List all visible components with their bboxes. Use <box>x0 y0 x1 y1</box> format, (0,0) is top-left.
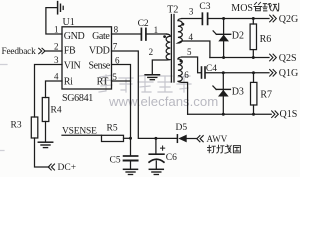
svg-text:R6: R6 <box>260 34 272 45</box>
wire pin3 VIN to R3 <box>35 65 63 118</box>
svg-text:U1: U1 <box>63 17 75 28</box>
Q1S arrow >> <box>271 111 278 118</box>
svg-text:Feedback: Feedback <box>2 47 37 57</box>
svg-text:D5: D5 <box>176 123 188 133</box>
AWV arrow << <box>197 135 204 142</box>
DC+ arrow << <box>48 164 55 171</box>
wire Q2S rail <box>210 57 269 59</box>
pin text FB <box>64 46 76 57</box>
T2 pin label 3 <box>189 6 194 16</box>
ground (below C6) <box>149 168 163 170</box>
T2 pin label 5 <box>187 47 192 57</box>
pin number 8 <box>114 25 119 35</box>
capacitor C5 <box>124 155 138 157</box>
wire pin1 GND to top ground <box>46 8 62 34</box>
svg-text:VIN: VIN <box>64 61 81 72</box>
junction sense/R5 <box>129 137 132 140</box>
label aux winding (hanzi) <box>208 145 241 153</box>
node Feedback label <box>2 47 37 57</box>
U1 label <box>63 17 75 28</box>
svg-text:www.elecfans.com: www.elecfans.com <box>108 94 218 109</box>
svg-text:VDD: VDD <box>89 46 110 57</box>
svg-text:GND: GND <box>64 31 85 42</box>
junction D3 bottom <box>222 113 225 116</box>
IC U1 box <box>62 27 112 89</box>
junction D2 top <box>222 17 225 20</box>
node Q2G label <box>279 14 298 25</box>
net label VSENSE <box>62 127 97 137</box>
junction R6 top <box>252 17 255 20</box>
label D2 <box>232 31 244 42</box>
zener diode D3 <box>222 73 224 114</box>
resistor R6 <box>252 19 254 25</box>
pin text RT <box>97 77 109 88</box>
ground (below R4) <box>38 141 52 143</box>
svg-text:SG6841: SG6841 <box>62 93 93 104</box>
zener diode D2 <box>223 19 225 58</box>
Q1G arrow >> <box>269 69 276 76</box>
svg-text:4: 4 <box>189 32 194 42</box>
capacitor C4 <box>201 67 203 78</box>
svg-text:Q2S: Q2S <box>279 53 297 64</box>
pin number 3 <box>54 55 59 65</box>
pin number 4 <box>54 71 59 81</box>
node Q1S label <box>280 109 298 120</box>
T2 pin label 1 <box>154 25 159 35</box>
pin text GND <box>64 31 85 42</box>
label D3 <box>232 86 244 97</box>
wire Feedback to pin2 FB <box>45 50 62 52</box>
pin number 2 <box>54 41 59 51</box>
node Q1G label <box>279 68 298 79</box>
wire pin7 VDD down and right to D5 <box>112 51 177 138</box>
svg-text:R7: R7 <box>260 89 272 100</box>
diode D5 <box>176 135 178 143</box>
pin number 5 <box>112 72 117 82</box>
svg-text:FB: FB <box>64 46 76 57</box>
svg-text:2: 2 <box>149 47 154 57</box>
ground (below C5) <box>124 168 138 170</box>
label D5 <box>176 123 188 133</box>
svg-text:C2: C2 <box>138 19 149 29</box>
svg-text:DC+: DC+ <box>58 163 77 173</box>
svg-text:AWV: AWV <box>207 134 228 144</box>
svg-text:Q1G: Q1G <box>279 68 298 79</box>
ground (T2 primary) <box>145 74 159 76</box>
junction R6 bottom <box>252 56 255 59</box>
label R6 <box>260 34 272 45</box>
svg-text:1: 1 <box>154 25 159 35</box>
pin text Sense <box>88 61 110 72</box>
label C2 <box>138 19 149 29</box>
junction R7 top <box>252 71 255 74</box>
polarity dot primary <box>163 35 166 38</box>
junction C6 tap <box>154 137 157 140</box>
T2 pin label 2 <box>149 47 154 57</box>
pin text VDD <box>89 46 110 57</box>
watermark www.elecfans.com <box>108 94 218 109</box>
wire pin5 RT tee <box>112 80 131 82</box>
junction R7 bottom <box>252 113 255 116</box>
label R4 <box>51 105 62 115</box>
pin number 1 <box>54 25 59 35</box>
Q2G arrow >> <box>269 15 276 22</box>
wire Q1G rail <box>206 72 269 74</box>
polarity dot secondary top <box>182 23 185 26</box>
svg-text:D2: D2 <box>232 31 244 42</box>
svg-text:Q2G: Q2G <box>279 14 298 25</box>
part number SG6841 <box>62 93 93 104</box>
junction D2 bottom <box>222 56 225 59</box>
svg-text:1: 1 <box>54 25 59 35</box>
watermark chinese chars <box>0 65 191 151</box>
wire T2 pin5 to C4 <box>182 57 201 73</box>
ground (top, rotated) <box>57 2 59 14</box>
svg-text:D3: D3 <box>232 86 244 97</box>
polarity dot secondary bottom <box>180 60 183 63</box>
svg-text:3: 3 <box>189 6 194 16</box>
junction D3 top <box>222 71 225 74</box>
transformer core <box>170 15 172 83</box>
T2 secondary winding top <box>178 19 210 58</box>
svg-text:C5: C5 <box>110 156 121 166</box>
resistor R4 <box>42 98 49 122</box>
capacitor C2 <box>140 28 142 40</box>
transformer T2 label <box>167 5 178 16</box>
svg-text:Gate: Gate <box>92 31 110 42</box>
resistor R3 <box>31 117 38 138</box>
wire Q1S rail <box>188 113 272 115</box>
wire R3 to DC+ <box>35 138 50 167</box>
label C3 <box>199 2 210 12</box>
svg-text:Ri: Ri <box>64 77 73 88</box>
svg-text:7: 7 <box>113 41 118 51</box>
wire VSENSE underline to R5 <box>62 134 102 136</box>
wire R4 to ground <box>45 122 47 142</box>
svg-text:Q1S: Q1S <box>280 109 298 120</box>
svg-text:C3: C3 <box>199 2 210 12</box>
label R5 <box>107 124 118 134</box>
pin number 7 <box>113 41 118 51</box>
label R3 <box>11 120 22 130</box>
svg-text:RT: RT <box>97 77 109 88</box>
capacitor C3 <box>201 13 203 24</box>
plus sign C6 <box>161 146 165 150</box>
label R7 <box>260 89 272 100</box>
Q2S arrow >> <box>269 54 276 61</box>
svg-text:6: 6 <box>184 70 189 80</box>
T2 pin label 4 <box>189 32 194 42</box>
wire pin8 Gate to C2 <box>112 33 141 35</box>
resistor R7 <box>253 73 255 83</box>
pin text VIN <box>64 61 81 72</box>
pin text Ri <box>64 77 73 88</box>
T2 secondary winding bottom <box>178 57 188 114</box>
pin number 6 <box>115 55 120 65</box>
svg-text:R5: R5 <box>107 124 118 134</box>
wire pin4 Ri to R4 <box>46 81 63 98</box>
wire Q2G rail <box>208 18 269 20</box>
label C6 <box>166 153 177 163</box>
node Q2S label <box>279 53 297 64</box>
svg-text:3: 3 <box>54 55 59 65</box>
resistor R5 <box>102 135 124 141</box>
svg-text:5: 5 <box>187 47 192 57</box>
svg-text:R4: R4 <box>51 105 62 115</box>
svg-text:5: 5 <box>112 72 117 82</box>
wire T2 pin3 to C3 <box>182 18 202 20</box>
capacitor C6 (polarized) <box>155 138 157 153</box>
label C4 <box>206 64 217 74</box>
T2 primary winding <box>152 34 170 74</box>
svg-text:2: 2 <box>54 41 59 51</box>
wire R5 to sense node <box>124 137 131 139</box>
svg-text:C6: C6 <box>166 153 177 163</box>
label C5 <box>110 156 121 166</box>
svg-text:R3: R3 <box>11 120 22 130</box>
svg-text:4: 4 <box>54 71 59 81</box>
Feedback arrow >> <box>38 48 45 54</box>
svg-text:Sense: Sense <box>88 61 110 72</box>
pin text Gate <box>92 31 110 42</box>
svg-text:MOS: MOS <box>231 3 253 14</box>
node DC+ label <box>58 163 77 173</box>
svg-text:T2: T2 <box>167 5 178 16</box>
wire pin6 Sense down to C5 <box>112 65 131 156</box>
wire C2 to T2 primary pin1 <box>147 33 167 35</box>
T2 pin label 6 <box>184 70 189 80</box>
node AWV label <box>207 134 228 144</box>
title MOS drive (hanzi) <box>231 3 253 14</box>
svg-text:8: 8 <box>114 25 119 35</box>
